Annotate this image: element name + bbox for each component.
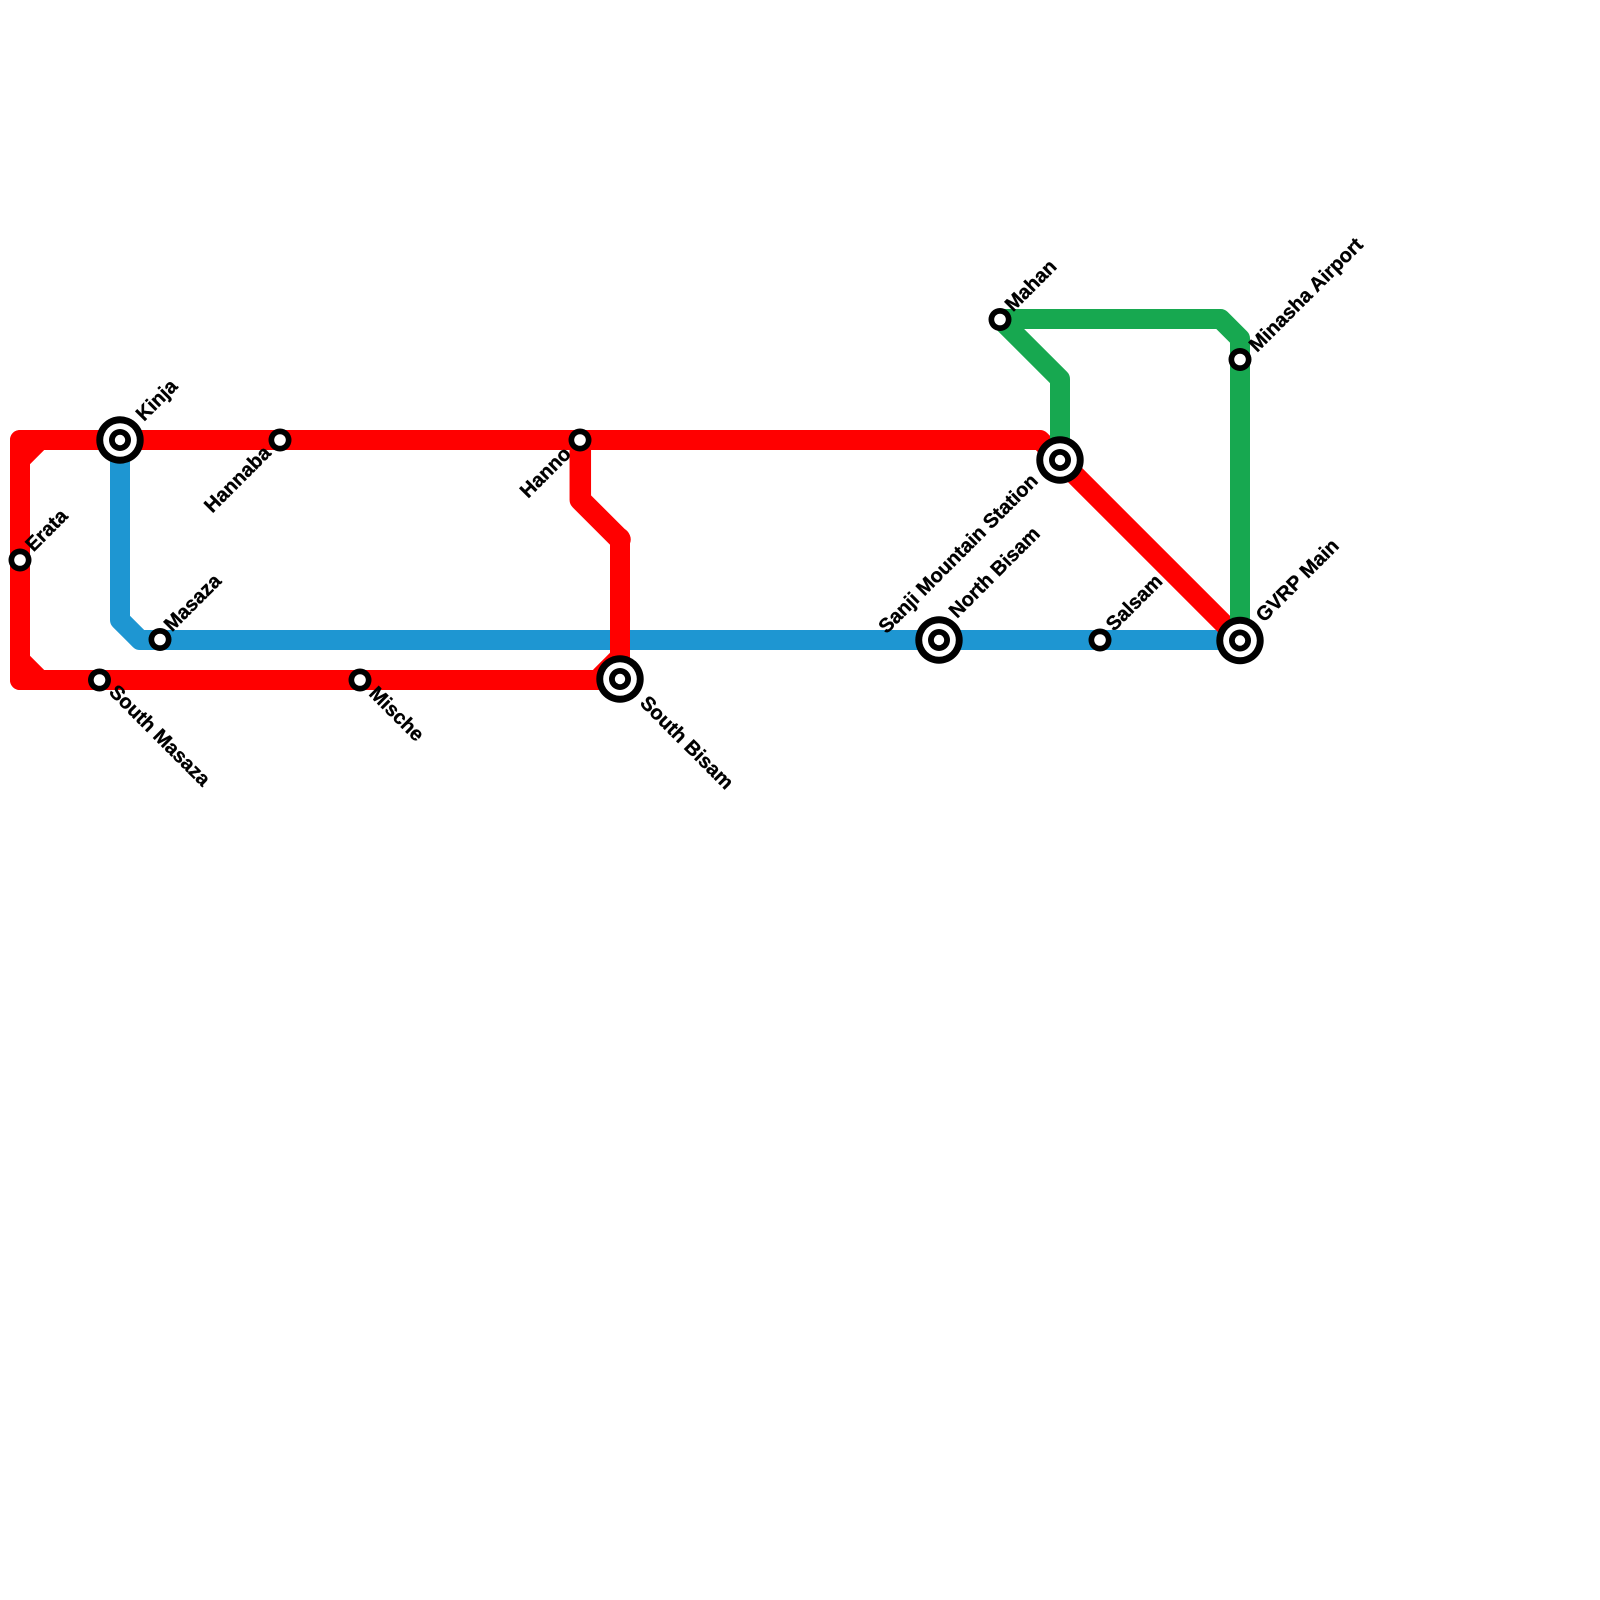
- red line bottom horizontal: [20, 670, 620, 690]
- station Kinja (interchange): [96, 416, 143, 463]
- station South Bisam (interchange): [596, 655, 643, 702]
- station Minasha Airport (small): [1229, 348, 1252, 371]
- red line chamfer top-left corner: [20, 440, 40, 460]
- red line Hanno jog (upper, double-drawn wider): [580, 440, 620, 540]
- station Masaza (small): [149, 628, 172, 651]
- station North Bisam (interchange): [915, 616, 962, 663]
- station Mische (small): [349, 669, 372, 692]
- station Hannaba (small): [269, 429, 292, 452]
- red line chamfer at South Bisam junction: [601, 657, 620, 676]
- green line Sanji vertical + Mahan diagonal + top horizontal + Minasha vertical to GVRP: [1000, 319, 1240, 640]
- red line Hanno jog vertical to South Bisam: [610, 538, 630, 662]
- blue line Kinja vertical + Masaza corner + horizontal to GVRP: [120, 440, 1240, 640]
- red line chamfer bottom-left corner: [20, 660, 40, 680]
- station Sanji Mountain Station (interchange): [1036, 436, 1083, 483]
- station Hanno (small): [569, 429, 592, 452]
- station South Masaza (small): [88, 669, 111, 692]
- red line left vertical: [10, 440, 30, 680]
- station Salsam (small): [1089, 629, 1112, 652]
- red line top horizontal + diagonal to GVRP: [20, 440, 1240, 680]
- station Erata (small): [9, 549, 32, 572]
- station Mahan (small): [989, 308, 1012, 331]
- station GVRP Main (interchange): [1216, 617, 1263, 664]
